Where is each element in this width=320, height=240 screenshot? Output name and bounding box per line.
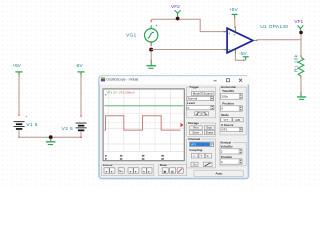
- Source button: [202, 92, 214, 96]
- svg-text:Run: Run: [193, 126, 199, 130]
- svg-text:R1 10k: R1 10k: [294, 54, 300, 72]
- Cursor group box: [102, 163, 154, 176]
- rising edge button: [195, 112, 202, 116]
- plot bottom separator: [104, 150, 183, 152]
- Normal combobox: [187, 96, 214, 100]
- op-amp input pin marks: [224, 31, 226, 32]
- plot corner mark: [105, 94, 106, 95]
- -5V supply flag (op-amp): [239, 51, 248, 60]
- svg-text:On: On: [193, 163, 197, 167]
- op-amp bottom supply pin: [235, 50, 236, 52]
- probe VF1: [298, 25, 304, 31]
- Auto button: [194, 170, 243, 176]
- svg-text:VG1: VG1: [126, 32, 136, 38]
- svg-text:-5V: -5V: [75, 63, 83, 69]
- probe VF2: [175, 10, 181, 16]
- Data group box: [159, 163, 187, 176]
- svg-text:Stop: Stop: [206, 126, 212, 130]
- trace VF1 (green): [104, 105, 183, 107]
- corner pin V1 bottom: [18, 137, 19, 138]
- trigger marker: [181, 123, 184, 127]
- svg-text:Position: Position: [222, 102, 234, 106]
- svg-text:V1 5: V1 5: [26, 122, 37, 128]
- node VF1 junction: [299, 31, 303, 35]
- Channel group box: [187, 137, 216, 168]
- channel dropdown (selected blue): [189, 142, 213, 147]
- svg-text:Time/Div: Time/Div: [222, 89, 234, 93]
- scope screen sunken box: [103, 89, 184, 161]
- Vertical group box: [220, 140, 246, 166]
- Storage group box: [187, 121, 216, 136]
- svg-text:No: No: [119, 169, 123, 173]
- op-amp U1 triangle: [227, 28, 253, 53]
- wire op-amp bottom to -5V flag: [235, 53, 244, 60]
- svg-text:U1 OPA140: U1 OPA140: [260, 24, 288, 30]
- ground symbol (under VG1): [146, 62, 156, 69]
- minimize button: [214, 79, 217, 82]
- svg-text:-5V: -5V: [239, 51, 247, 57]
- Mode button: [191, 92, 201, 96]
- node VF2 junction: [176, 17, 180, 21]
- svg-text:Source: Source: [203, 92, 213, 96]
- svg-text:Trigger: Trigger: [189, 85, 200, 89]
- svg-text:≡: ≡: [207, 154, 209, 158]
- close button: [239, 79, 242, 82]
- +5V supply flag (op-amp): [229, 7, 238, 19]
- wire -5V flag to V2 top: [80, 77, 82, 117]
- op-amp output pin: [253, 40, 255, 41]
- svg-text:▤: ▤: [171, 170, 174, 174]
- svg-text:Auto: Auto: [215, 172, 222, 176]
- battery V1 pin mark top: [19, 114, 20, 116]
- generator VG1: [145, 23, 159, 42]
- svg-text:VF1: VF1: [191, 142, 197, 146]
- falling edge button: [202, 112, 209, 116]
- -5V supply flag (second branch): [75, 63, 84, 77]
- svg-text:Data: Data: [160, 163, 167, 167]
- x axis tick label smudges: [105, 155, 164, 160]
- battery V1: [14, 115, 28, 130]
- svg-text:Channel: Channel: [188, 137, 200, 141]
- svg-text:V2 5: V2 5: [62, 126, 73, 132]
- svg-text:Cursor: Cursor: [103, 163, 114, 167]
- trace VF2 (red square wave): [104, 116, 180, 130]
- svg-text:Mode: Mode: [221, 113, 229, 117]
- svg-text:Level: Level: [187, 101, 195, 105]
- window shadow: [100, 77, 249, 180]
- wire VG1 bottom to ground: [150, 51, 152, 62]
- resistor R1 pins: [300, 55, 301, 57]
- resistor R1: [298, 57, 304, 76]
- scope grid: [104, 90, 183, 152]
- color/pen button: [203, 162, 212, 167]
- svg-text:A/B: A/B: [235, 118, 240, 122]
- window frame: [99, 76, 248, 179]
- wire V2 bottom to rail: [80, 131, 82, 137]
- time/div spin: [221, 93, 243, 99]
- svg-text:+: +: [200, 154, 202, 158]
- svg-text:200u: 200u: [222, 95, 229, 99]
- ground symbol (under R1): [297, 93, 306, 100]
- canvas background: [0, 0, 320, 187]
- ground symbol (bottom rail): [46, 139, 56, 146]
- battery V2 pin mark top: [81, 115, 82, 117]
- Trigger group box: [187, 85, 216, 118]
- svg-text:Volts/Div: Volts/Div: [221, 145, 234, 149]
- Horizontal group box: [220, 85, 246, 135]
- svg-text:+5V: +5V: [12, 63, 21, 69]
- op-amp - mark: [228, 48, 230, 51]
- svg-text:Storage: Storage: [188, 121, 200, 125]
- bottom rail wire: [19, 136, 81, 138]
- svg-text:+5V: +5V: [229, 7, 238, 13]
- wire VG1 top to op-amp + input: [151, 19, 225, 31]
- svg-text:Store: Store: [192, 131, 199, 135]
- coupling buttons: [191, 153, 198, 158]
- svg-text:Erase: Erase: [206, 131, 214, 135]
- VG1 top pin: [151, 25, 152, 28]
- svg-text:VF1: VF1: [222, 128, 228, 132]
- title bar: [100, 76, 250, 84]
- svg-text:Coupling: Coupling: [189, 148, 202, 152]
- svg-text:VF1: VF1: [294, 19, 303, 25]
- wire +5V to op-amp top: [234, 19, 236, 28]
- svg-text:X Source: X Source: [221, 123, 234, 127]
- svg-text:VF1 2VVF2 500mV: VF1 2VVF2 500mV: [107, 91, 136, 95]
- svg-text:Y/T: Y/T: [224, 118, 229, 122]
- svg-text:Position: Position: [221, 155, 233, 159]
- scope zero dashed line (red channel): [104, 121, 180, 123]
- node VG1 bottom junction: [149, 48, 153, 52]
- corner pin V2 bottom: [80, 137, 81, 138]
- +5V supply flag (left branch): [12, 63, 22, 77]
- svg-text:▣: ▣: [163, 170, 166, 174]
- svg-text:+: +: [25, 115, 27, 119]
- svg-text:Oscilloscope - Virtual: Oscilloscope - Virtual: [106, 77, 138, 81]
- battery V2: [76, 123, 87, 132]
- VG1 bottom pin: [151, 42, 152, 44]
- svg-text:Vertical: Vertical: [220, 140, 231, 144]
- wire +5V flag to V1 top: [18, 77, 20, 116]
- wire VG1 to op-amp inverting input: [151, 49, 225, 51]
- Level edit with spinner: [187, 105, 214, 109]
- wire R1 to ground: [300, 78, 302, 93]
- window icon: [101, 77, 105, 81]
- ground node junction: [49, 135, 53, 139]
- svg-text:+: +: [155, 23, 158, 28]
- svg-text:Normal: Normal: [188, 97, 198, 101]
- wire V1 bottom to rail: [18, 130, 20, 137]
- maximize button: [226, 79, 229, 82]
- wire op-amp output to VF1 node: [257, 33, 302, 56]
- On button: [191, 162, 198, 167]
- svg-text:VF2: VF2: [171, 4, 180, 10]
- svg-text:Mode: Mode: [193, 92, 201, 96]
